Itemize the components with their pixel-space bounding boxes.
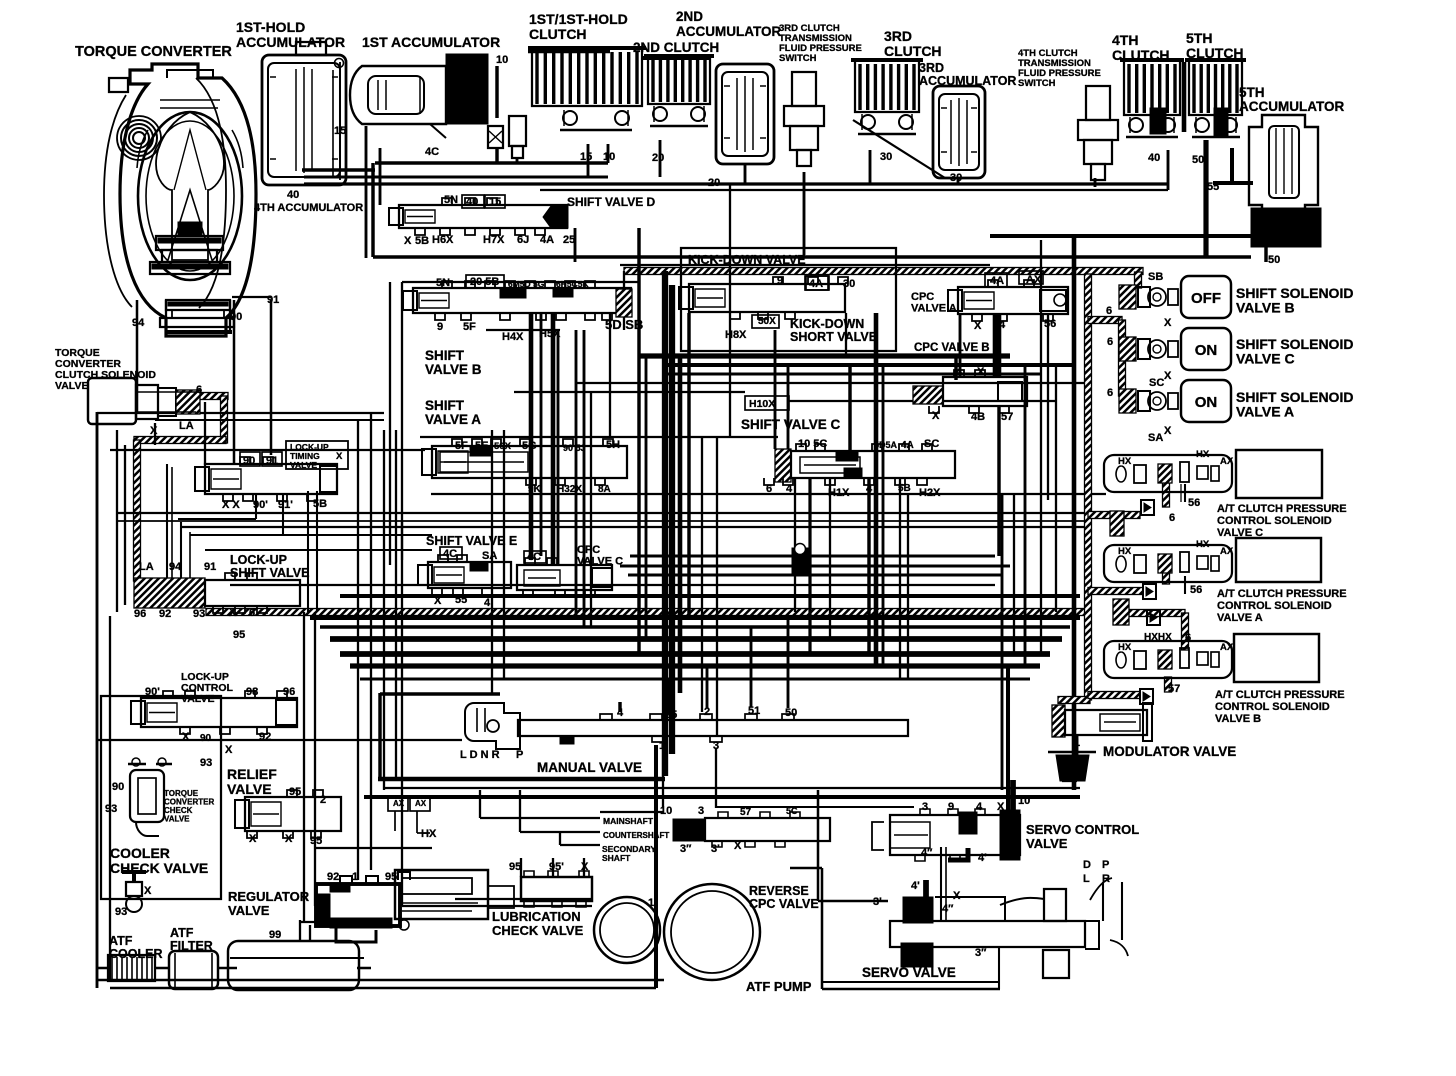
svg-text:HXHX: HXHX	[1144, 632, 1172, 643]
svg-text:4″: 4″	[942, 903, 954, 915]
svg-text:H5X: H5X	[539, 328, 561, 340]
svg-text:ACCUMULATOR: ACCUMULATOR	[236, 34, 345, 50]
svg-text:5C: 5C	[786, 806, 798, 816]
svg-text:10: 10	[603, 151, 615, 163]
svg-text:VALVE: VALVE	[227, 781, 272, 797]
svg-text:90: 90	[243, 455, 255, 467]
svg-text:H7X: H7X	[483, 234, 505, 246]
svg-text:5G: 5G	[522, 440, 537, 452]
svg-text:CPC: CPC	[577, 544, 600, 556]
svg-text:90: 90	[230, 311, 242, 323]
svg-text:6M5D 5G: 6M5D 5G	[508, 279, 545, 289]
svg-text:4': 4'	[911, 880, 920, 892]
svg-text:6: 6	[196, 384, 202, 396]
svg-text:ON: ON	[1195, 342, 1218, 359]
svg-text:2: 2	[704, 706, 710, 718]
svg-text:X: X	[1164, 370, 1172, 382]
svg-text:LA: LA	[139, 561, 154, 573]
svg-text:2ND CLUTCH: 2ND CLUTCH	[633, 40, 719, 55]
svg-text:3: 3	[922, 801, 928, 813]
svg-text:57: 57	[1168, 683, 1180, 695]
svg-text:50X: 50X	[494, 441, 512, 452]
svg-text:5TH: 5TH	[1186, 30, 1212, 46]
svg-text:5B: 5B	[313, 498, 327, 510]
svg-text:6H5C5K: 6H5C5K	[556, 279, 589, 289]
svg-text:LOCK-UP: LOCK-UP	[230, 553, 287, 567]
svg-text:VALVE: VALVE	[164, 815, 190, 824]
svg-text:90 5J: 90 5J	[563, 443, 586, 453]
svg-text:3RD: 3RD	[884, 28, 912, 44]
svg-text:4: 4	[484, 597, 491, 609]
svg-text:4: 4	[999, 319, 1006, 331]
svg-text:COOLER: COOLER	[110, 845, 170, 861]
svg-text:30: 30	[843, 278, 855, 290]
svg-text:91: 91	[266, 455, 278, 467]
svg-text:4″: 4″	[921, 847, 933, 859]
svg-text:SA: SA	[482, 550, 497, 562]
svg-text:CPC VALVE: CPC VALVE	[749, 897, 819, 911]
svg-text:COUNTERSHAFT: COUNTERSHAFT	[603, 831, 669, 840]
svg-text:X: X	[182, 731, 190, 743]
svg-text:96: 96	[283, 686, 295, 698]
svg-text:X: X	[932, 410, 940, 422]
svg-text:CONTROL SOLENOID: CONTROL SOLENOID	[1215, 701, 1330, 713]
svg-text:6: 6	[1107, 387, 1113, 399]
svg-text:5D5A: 5D5A	[874, 440, 898, 450]
svg-text:ACCUMULATOR: ACCUMULATOR	[676, 24, 781, 39]
svg-text:1: 1	[648, 897, 654, 909]
svg-text:AX: AX	[393, 799, 405, 808]
svg-text:5E: 5E	[475, 440, 488, 452]
svg-text:30: 30	[950, 172, 962, 184]
svg-text:3″: 3″	[680, 843, 692, 855]
svg-text:1ST ACCUMULATOR: 1ST ACCUMULATOR	[362, 34, 500, 50]
svg-text:P: P	[1102, 859, 1109, 871]
svg-text:REVERSE: REVERSE	[749, 884, 809, 898]
svg-text:L: L	[1083, 873, 1090, 885]
svg-text:4TH ACCUMULATOR: 4TH ACCUMULATOR	[254, 202, 363, 214]
svg-text:10: 10	[1018, 795, 1030, 807]
svg-text:93: 93	[105, 803, 117, 815]
svg-text:H1X: H1X	[828, 487, 850, 499]
svg-text:5D SB: 5D SB	[605, 317, 643, 332]
svg-text:SHIFT VALVE C: SHIFT VALVE C	[741, 417, 841, 432]
svg-text:VALVE A: VALVE A	[911, 303, 957, 315]
svg-text:VALVE A: VALVE A	[425, 412, 481, 427]
svg-text:A/T CLUTCH PRESSURE: A/T CLUTCH PRESSURE	[1217, 503, 1347, 515]
svg-text:40: 40	[1148, 152, 1160, 164]
svg-text:A/T CLUTCH PRESSURE: A/T CLUTCH PRESSURE	[1217, 588, 1347, 600]
svg-text:90': 90'	[253, 499, 268, 511]
svg-text:93: 93	[200, 757, 212, 769]
svg-text:FILTER: FILTER	[170, 939, 213, 953]
svg-text:6J: 6J	[517, 234, 529, 246]
svg-text:55: 55	[1207, 181, 1219, 193]
svg-text:VALVE: VALVE	[181, 693, 214, 705]
svg-text:1ST-HOLD: 1ST-HOLD	[236, 19, 305, 35]
svg-text:RELIEF: RELIEF	[227, 766, 277, 782]
svg-text:X: X	[404, 235, 412, 247]
svg-text:4': 4'	[978, 852, 987, 864]
svg-text:20: 20	[652, 152, 664, 164]
svg-text:4A: 4A	[540, 234, 554, 246]
svg-text:90: 90	[112, 781, 124, 793]
svg-text:6: 6	[249, 607, 255, 619]
svg-text:CHECK VALVE: CHECK VALVE	[492, 923, 584, 938]
svg-text:VALVE B: VALVE B	[1215, 713, 1261, 725]
svg-text:55: 55	[455, 594, 467, 606]
svg-text:5F: 5F	[455, 440, 468, 452]
svg-text:R: R	[1102, 873, 1110, 885]
svg-text:92: 92	[259, 731, 271, 743]
svg-text:99: 99	[269, 929, 281, 941]
svg-text:VALVE: VALVE	[1026, 836, 1068, 851]
svg-text:X: X	[229, 607, 237, 619]
svg-text:94: 94	[169, 561, 182, 573]
svg-text:VALVE C: VALVE C	[577, 556, 623, 568]
svg-text:4B: 4B	[971, 411, 985, 423]
svg-text:AX: AX	[1026, 274, 1042, 286]
svg-text:ATF: ATF	[170, 926, 194, 940]
svg-text:X: X	[1164, 425, 1172, 437]
svg-text:SWITCH: SWITCH	[1018, 78, 1056, 89]
svg-text:SHORT VALVE: SHORT VALVE	[790, 330, 877, 344]
svg-text:2: 2	[320, 794, 326, 806]
svg-text:VALVE: VALVE	[228, 903, 270, 918]
svg-text:3: 3	[698, 805, 704, 817]
svg-text:AX: AX	[1220, 546, 1234, 557]
svg-text:56: 56	[1190, 584, 1202, 596]
svg-text:HX: HX	[1118, 642, 1132, 653]
svg-text:MODULATOR VALVE: MODULATOR VALVE	[1103, 744, 1236, 759]
svg-text:OFF: OFF	[1191, 290, 1221, 307]
svg-text:AX: AX	[1220, 456, 1234, 467]
svg-text:95: 95	[233, 629, 245, 641]
svg-text:SHIFT VALVE D: SHIFT VALVE D	[567, 195, 656, 209]
svg-text:4A: 4A	[901, 440, 914, 451]
svg-text:X: X	[581, 861, 589, 873]
svg-text:KICK-DOWN VALVE: KICK-DOWN VALVE	[688, 253, 806, 267]
svg-text:ATF PUMP: ATF PUMP	[746, 979, 812, 994]
svg-text:A/T CLUTCH PRESSURE: A/T CLUTCH PRESSURE	[1215, 689, 1345, 701]
svg-text:6: 6	[1106, 305, 1112, 317]
svg-text:X X: X X	[222, 499, 240, 511]
svg-text:X: X	[977, 366, 985, 378]
svg-text:X: X	[734, 840, 742, 852]
svg-text:57: 57	[740, 807, 752, 818]
svg-text:SHIFT: SHIFT	[425, 348, 465, 363]
svg-text:H10X: H10X	[749, 398, 775, 410]
svg-text:AX: AX	[1220, 642, 1234, 653]
svg-text:VALVE C: VALVE C	[1217, 527, 1263, 539]
svg-text:CONTROL SOLENOID: CONTROL SOLENOID	[1217, 600, 1332, 612]
svg-text:95: 95	[385, 871, 397, 883]
svg-text:9: 9	[437, 321, 443, 333]
svg-text:H32X: H32X	[557, 484, 582, 495]
svg-text:95: 95	[289, 786, 301, 798]
svg-text:2ND: 2ND	[676, 9, 703, 24]
svg-text:X: X	[249, 833, 257, 845]
svg-text:6: 6	[1185, 632, 1191, 644]
svg-text:4: 4	[866, 483, 873, 495]
svg-text:VALVE B: VALVE B	[425, 362, 482, 377]
svg-text:VALVE A: VALVE A	[1236, 404, 1294, 420]
svg-text:4: 4	[976, 801, 983, 813]
svg-text:ACCUMULATOR: ACCUMULATOR	[1239, 99, 1344, 114]
svg-text:SHIFT VALVE E: SHIFT VALVE E	[426, 534, 517, 548]
svg-text:10 5C: 10 5C	[798, 438, 827, 450]
svg-text:5B: 5B	[898, 483, 911, 494]
svg-text:VALVE B: VALVE B	[1236, 300, 1295, 316]
svg-text:30: 30	[880, 151, 892, 163]
svg-text:VALVE A: VALVE A	[1217, 612, 1263, 624]
svg-text:KICK-DOWN: KICK-DOWN	[790, 317, 864, 331]
svg-text:4C: 4C	[425, 146, 439, 158]
svg-text:SHAFT: SHAFT	[602, 853, 631, 863]
svg-text:20 5B: 20 5B	[470, 276, 499, 288]
svg-text:5N: 5N	[436, 277, 450, 289]
svg-text:X: X	[434, 595, 442, 607]
svg-text:95: 95	[310, 835, 322, 847]
svg-text:VALVE C: VALVE C	[1236, 351, 1295, 367]
svg-text:4A: 4A	[990, 275, 1004, 287]
svg-text:CPC: CPC	[911, 291, 934, 303]
svg-text:D: D	[1083, 859, 1091, 871]
svg-text:H6X: H6X	[432, 234, 454, 246]
svg-text:98: 98	[246, 686, 258, 698]
svg-text:HX: HX	[1118, 546, 1132, 557]
svg-text:9K: 9K	[528, 484, 542, 495]
svg-text:HX: HX	[1196, 449, 1210, 460]
svg-text:X: X	[974, 320, 982, 332]
svg-text:15: 15	[334, 125, 346, 137]
svg-text:10: 10	[496, 54, 508, 66]
svg-text:SHIFT VALVE: SHIFT VALVE	[230, 566, 309, 580]
svg-text:VALVE: VALVE	[290, 460, 317, 470]
svg-text:X: X	[997, 801, 1005, 813]
svg-text:50X: 50X	[758, 316, 776, 327]
svg-text:6: 6	[1107, 336, 1113, 348]
svg-text:57: 57	[1001, 411, 1013, 423]
svg-text:92: 92	[327, 871, 339, 883]
svg-text:X: X	[953, 890, 961, 902]
svg-text:CPC VALVE B: CPC VALVE B	[914, 342, 990, 354]
svg-text:3: 3	[713, 740, 719, 752]
svg-text:MANUAL VALVE: MANUAL VALVE	[537, 760, 642, 775]
svg-text:H2X: H2X	[919, 487, 941, 499]
svg-text:93: 93	[193, 608, 205, 620]
svg-text:SC: SC	[924, 438, 939, 450]
svg-text:CLUTCH: CLUTCH	[884, 43, 942, 59]
svg-text:CLUTCH: CLUTCH	[1186, 45, 1244, 61]
svg-text:91: 91	[267, 294, 279, 306]
svg-text:CONTROL SOLENOID: CONTROL SOLENOID	[1217, 515, 1332, 527]
svg-text:40: 40	[466, 196, 478, 208]
svg-text:3': 3'	[711, 843, 720, 855]
svg-text:10: 10	[660, 805, 672, 817]
svg-text:HX: HX	[1118, 456, 1132, 467]
svg-text:25: 25	[665, 709, 677, 721]
svg-text:9: 9	[948, 801, 954, 813]
svg-text:HX: HX	[421, 828, 437, 840]
svg-text:H8X: H8X	[725, 329, 747, 341]
svg-text:HX: HX	[1196, 539, 1210, 550]
svg-text:ON: ON	[1195, 394, 1218, 411]
svg-text:5B: 5B	[415, 235, 429, 247]
svg-text:9: 9	[777, 275, 783, 287]
svg-text:SERVO CONTROL: SERVO CONTROL	[1026, 822, 1139, 837]
svg-text:P: P	[516, 749, 523, 761]
svg-text:SA: SA	[1148, 432, 1163, 444]
svg-text:4: 4	[956, 366, 963, 378]
svg-text:ACCUMULATOR: ACCUMULATOR	[919, 74, 1016, 88]
svg-text:50: 50	[785, 707, 797, 719]
svg-text:SERVO VALVE: SERVO VALVE	[862, 965, 956, 980]
svg-text:95: 95	[509, 861, 521, 873]
svg-text:1: 1	[1074, 737, 1080, 749]
svg-text:LUBRICATION: LUBRICATION	[492, 909, 581, 924]
svg-text:5H: 5H	[606, 439, 620, 451]
svg-text:90: 90	[200, 733, 212, 744]
svg-text:SB: SB	[1148, 271, 1163, 283]
svg-text:CHECK VALVE: CHECK VALVE	[110, 860, 208, 876]
svg-text:1: 1	[659, 740, 665, 752]
svg-text:MAINSHAFT: MAINSHAFT	[603, 816, 654, 826]
svg-text:56: 56	[1044, 318, 1056, 330]
svg-text:SWITCH: SWITCH	[779, 53, 817, 64]
svg-text:4A: 4A	[809, 278, 823, 290]
svg-text:AX: AX	[415, 799, 427, 808]
svg-text:X: X	[144, 885, 152, 897]
svg-text:CLUTCH: CLUTCH	[529, 26, 587, 42]
svg-text:X: X	[225, 744, 233, 756]
svg-text:40: 40	[287, 189, 299, 201]
svg-text:3': 3'	[873, 896, 882, 908]
svg-text:1: 1	[352, 871, 358, 883]
svg-text:TORQUE CONVERTER: TORQUE CONVERTER	[75, 44, 232, 60]
svg-text:5N: 5N	[444, 194, 458, 206]
svg-text:X: X	[336, 451, 343, 462]
svg-text:95': 95'	[549, 861, 564, 873]
svg-text:ATF: ATF	[109, 934, 133, 948]
svg-text:90': 90'	[145, 686, 160, 698]
svg-text:96: 96	[134, 608, 146, 620]
svg-text:1: 1	[324, 917, 330, 929]
svg-text:50: 50	[1268, 254, 1280, 266]
svg-text:56: 56	[1188, 497, 1200, 509]
svg-text:51: 51	[748, 705, 760, 717]
svg-text:5TH: 5TH	[1239, 85, 1265, 100]
svg-text:6: 6	[766, 483, 772, 495]
svg-text:REGULATOR: REGULATOR	[228, 889, 310, 904]
svg-text:SC: SC	[1149, 377, 1164, 389]
svg-text:3″: 3″	[975, 947, 987, 959]
svg-text:50: 50	[1192, 154, 1204, 166]
svg-text:L D N R: L D N R	[460, 749, 500, 761]
svg-text:15: 15	[489, 196, 501, 208]
svg-text:6: 6	[1169, 512, 1175, 524]
svg-text:X: X	[150, 425, 158, 437]
svg-text:91': 91'	[278, 499, 293, 511]
svg-text:15: 15	[580, 151, 592, 163]
svg-text:4C: 4C	[527, 551, 541, 563]
svg-text:20: 20	[708, 177, 720, 189]
svg-text:X: X	[1164, 317, 1172, 329]
svg-text:3RD: 3RD	[919, 61, 944, 75]
svg-text:93: 93	[115, 906, 127, 918]
svg-text:LA: LA	[179, 420, 194, 432]
svg-text:92: 92	[159, 608, 171, 620]
svg-text:91: 91	[204, 561, 216, 573]
svg-text:5F: 5F	[463, 321, 476, 333]
svg-text:4TH: 4TH	[1112, 32, 1138, 48]
svg-text:1ST/1ST-HOLD: 1ST/1ST-HOLD	[529, 11, 628, 27]
svg-text:4: 4	[786, 483, 793, 495]
svg-text:CLUTCH: CLUTCH	[1112, 47, 1170, 63]
svg-text:4C: 4C	[443, 548, 457, 560]
svg-text:H4X: H4X	[502, 331, 524, 343]
svg-text:SHIFT: SHIFT	[425, 398, 465, 413]
svg-text:94: 94	[132, 317, 145, 329]
svg-text:4: 4	[617, 707, 624, 719]
svg-text:25: 25	[563, 234, 575, 246]
svg-text:COOLER: COOLER	[109, 947, 162, 961]
svg-text:VALVE: VALVE	[55, 380, 88, 392]
svg-text:X: X	[285, 833, 293, 845]
svg-text:8A: 8A	[598, 484, 611, 495]
